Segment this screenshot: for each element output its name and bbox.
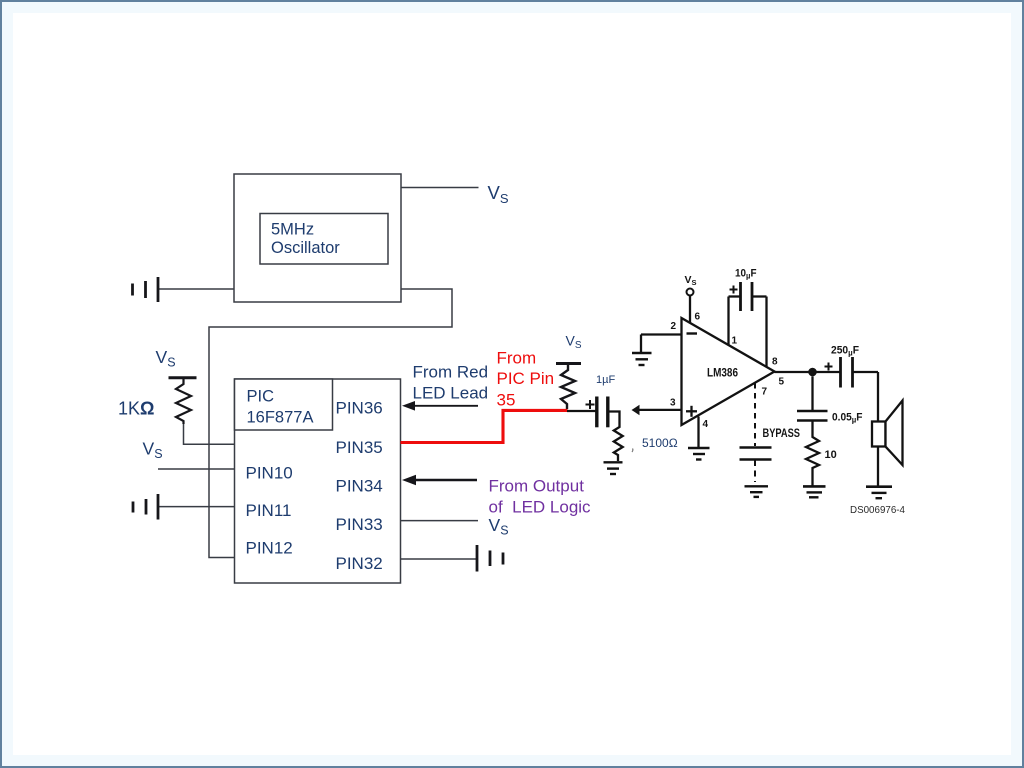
svg-text:10: 10 xyxy=(825,449,837,461)
svg-text:PIC Pin: PIC Pin xyxy=(497,369,555,388)
svg-text:16F877A: 16F877A xyxy=(247,409,314,427)
svg-text:LM386: LM386 xyxy=(707,368,738,380)
svg-text:4: 4 xyxy=(703,419,709,430)
svg-text:PIN34: PIN34 xyxy=(336,477,383,496)
svg-text:LED Lead: LED Lead xyxy=(413,384,489,403)
svg-text:PIC: PIC xyxy=(247,388,275,406)
svg-text:DS006976-4: DS006976-4 xyxy=(850,504,905,516)
svg-text:0.05µF: 0.05µF xyxy=(832,412,863,425)
svg-text:PIN12: PIN12 xyxy=(246,539,293,558)
svg-text:1KΩ: 1KΩ xyxy=(118,399,154,419)
svg-text:PIN32: PIN32 xyxy=(336,554,383,573)
svg-text:1: 1 xyxy=(732,336,738,347)
svg-text:From Red: From Red xyxy=(413,363,489,382)
svg-text:PIN10: PIN10 xyxy=(246,464,293,483)
svg-text:8: 8 xyxy=(772,357,778,368)
svg-text:PIN36: PIN36 xyxy=(336,399,383,418)
svg-text:10µF: 10µF xyxy=(735,268,757,281)
svg-text:Oscillator: Oscillator xyxy=(271,239,340,257)
svg-text:BYPASS: BYPASS xyxy=(763,426,801,440)
svg-text:3: 3 xyxy=(670,398,676,409)
svg-text:PIN35: PIN35 xyxy=(336,438,383,457)
svg-text:5: 5 xyxy=(779,377,785,388)
svg-text:250µF: 250µF xyxy=(831,345,859,358)
svg-text:From: From xyxy=(497,349,537,368)
svg-text:PIN33: PIN33 xyxy=(336,515,383,534)
svg-text:7: 7 xyxy=(762,387,768,398)
svg-text:From Output: From Output xyxy=(489,477,585,496)
svg-text:1µF: 1µF xyxy=(596,374,615,386)
svg-text:of LED Logic: of LED Logic xyxy=(489,498,592,517)
svg-text:2: 2 xyxy=(671,321,677,332)
svg-text:5100Ω: 5100Ω xyxy=(642,436,678,450)
svg-text:5MHz: 5MHz xyxy=(271,221,314,239)
svg-text:35: 35 xyxy=(497,391,516,410)
svg-text:PIN11: PIN11 xyxy=(246,501,292,520)
svg-text:6: 6 xyxy=(695,312,701,323)
